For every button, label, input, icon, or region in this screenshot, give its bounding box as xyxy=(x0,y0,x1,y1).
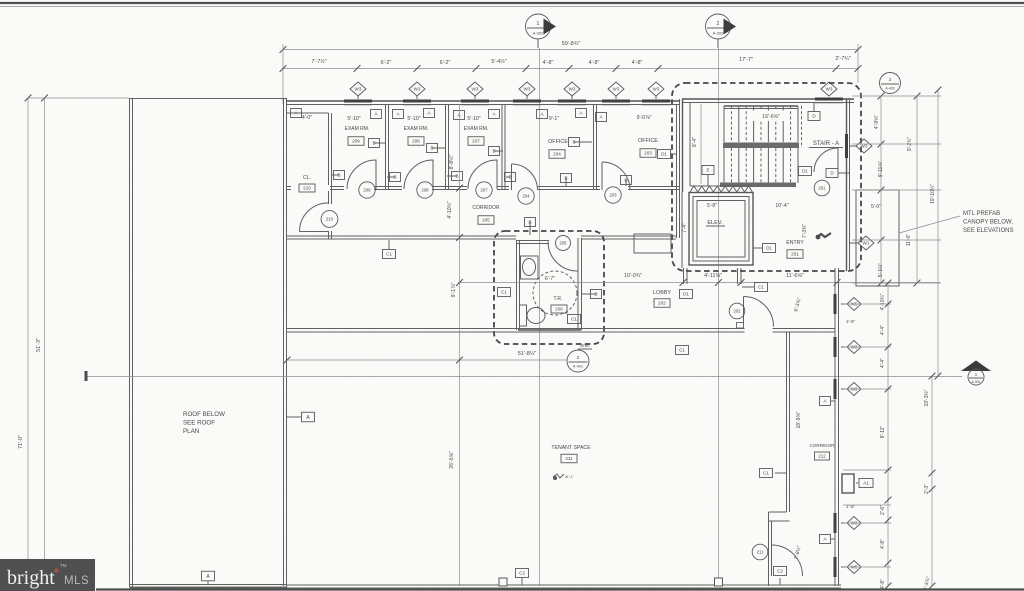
door tag B (626,180) xyxy=(625,180,627,186)
entry bottom dashed wall interior line xyxy=(681,192,683,268)
wall tag A (459,115) xyxy=(454,111,465,120)
long reference line to marker 1/A-301 xyxy=(86,376,962,378)
tenant bottom wall xyxy=(286,584,841,586)
marker 1 / A-301 right side xyxy=(961,361,991,372)
W3 tag right of stair xyxy=(850,145,856,147)
door arc office 204 xyxy=(512,164,538,190)
wall tag A corridor lower xyxy=(820,535,831,544)
wall tag A (376,114) xyxy=(371,110,382,119)
roof area right / tenant left wall xyxy=(283,98,285,586)
tag D1 office 203 wall xyxy=(670,153,677,155)
door tag B (530,222) xyxy=(529,222,531,235)
door arc exam 208 xyxy=(404,160,433,189)
toilet door arc xyxy=(548,242,578,272)
window tag W3 at x=475 xyxy=(474,96,476,99)
tag C1 below entry xyxy=(742,286,755,288)
tag C1 tenant right wall xyxy=(775,472,786,474)
tag W1 right of entry xyxy=(850,242,858,244)
stair treads upper flight xyxy=(724,105,798,107)
door arc office 203 xyxy=(602,162,630,190)
door tag 211 xyxy=(752,544,768,560)
stair handrail dashes xyxy=(801,106,803,148)
tenant top wall xyxy=(287,328,835,330)
tag C1 under corridor wall xyxy=(388,240,390,249)
tag D stair top xyxy=(813,102,815,112)
stair door arc xyxy=(814,148,838,172)
roof area left wall xyxy=(129,98,131,587)
window A1 xyxy=(842,474,854,493)
door tag 202 xyxy=(729,303,745,319)
tag D1 entry xyxy=(753,247,762,249)
closet CL right wall xyxy=(328,113,330,204)
door tag B (374,143) xyxy=(374,142,386,144)
window in stair right wall xyxy=(845,134,848,158)
door tag B (457,176) xyxy=(447,175,457,177)
second floor dashed boundary xyxy=(672,83,861,271)
dim line 10'-0 3/4 and lobby top line xyxy=(458,282,940,284)
left dimension extension line xyxy=(28,97,129,99)
exam rooms bottom wall xyxy=(287,186,679,188)
elevator hatched sill xyxy=(690,186,752,192)
roof area bottom wall xyxy=(130,584,287,586)
door arc exam 209 xyxy=(347,160,376,189)
window sill at x=358 xyxy=(344,100,372,103)
door tag 208 xyxy=(417,182,433,198)
door tag 207 xyxy=(476,182,492,198)
grid marker 2 / A-302 xyxy=(706,14,737,48)
tag C1 in toilet xyxy=(568,315,581,324)
roof area top wall xyxy=(130,98,287,100)
window sill at x=417 xyxy=(403,100,431,103)
wall right of office 203 xyxy=(676,104,678,238)
window tag W3 at x=572 xyxy=(571,96,573,99)
marker 2 / A-400 xyxy=(880,73,901,94)
tenant right wall jog xyxy=(769,511,787,513)
door tag B (339,175) xyxy=(331,174,339,176)
stair room top wall xyxy=(682,98,854,100)
door tag B (574,142) xyxy=(574,141,592,143)
right dim vertical x=888 xyxy=(887,283,889,586)
dim vertical 26'-6 5/8 xyxy=(459,104,461,586)
stair dim 8'-4 vertical xyxy=(700,104,702,184)
window sill at x=616 xyxy=(602,100,630,103)
tag D1 stair door xyxy=(799,167,812,176)
toilet fixture xyxy=(520,305,527,326)
canopy outline xyxy=(856,190,899,286)
window sill at x=527 xyxy=(513,100,541,103)
paper texture xyxy=(0,0,1,1)
segmented dimension line top row xyxy=(283,68,858,70)
window sill at x=656 xyxy=(642,100,670,103)
elevator car xyxy=(697,201,745,258)
corridor 212 windows and tags xyxy=(834,294,837,314)
wall between exam 209 and 208 xyxy=(385,104,387,190)
pencil scribble entry xyxy=(816,233,831,238)
door tag 209 xyxy=(359,182,375,198)
tag C2 bottom center xyxy=(521,578,523,585)
door tag circle 205 xyxy=(556,236,571,251)
wall between office 204 and 203 xyxy=(593,104,595,190)
tag E elevator xyxy=(702,166,714,175)
door tag B (566,178) xyxy=(565,178,567,186)
wall tag A (601,117) xyxy=(596,113,607,122)
stair room left wall xyxy=(679,99,681,192)
tag C1 left of toilet xyxy=(498,288,511,297)
door arc closet 210 xyxy=(300,203,329,232)
door tag B (395,177) xyxy=(387,176,395,178)
dimension line 51'-8 1/4 xyxy=(287,359,567,361)
stair dim 16'-6 5/8 xyxy=(752,111,790,122)
grid line 1 vertical xyxy=(539,48,541,586)
window tag W3 at x=417 xyxy=(416,96,418,99)
stair bottom bar xyxy=(720,183,796,188)
window in stair top wall xyxy=(815,98,843,101)
stair side wall interior xyxy=(689,102,691,186)
vestibule wall below entry xyxy=(737,268,739,284)
wall tag A corridor xyxy=(820,397,831,406)
grid marker 1 / A-302 xyxy=(526,14,557,48)
door tag 203 xyxy=(605,187,621,203)
tag C2 near door 211 xyxy=(779,578,781,585)
right dim vertical x=932 xyxy=(931,376,933,586)
door tag 201 xyxy=(814,180,830,196)
pencil scribble in tenant space xyxy=(553,474,564,478)
wall tag A (296,113) xyxy=(291,109,302,118)
turning radius dashed circle xyxy=(533,271,577,315)
corridor 212 exterior wall xyxy=(834,268,836,586)
tag C1 on ref line xyxy=(676,346,689,355)
door tag 210 xyxy=(321,211,338,228)
wall tag A bottom of roof area xyxy=(207,581,209,584)
tenant right wall upper xyxy=(786,332,788,512)
door tag 204 xyxy=(518,188,534,204)
wall right of exam 207 xyxy=(501,104,503,190)
toilet room top wall xyxy=(517,240,550,242)
tag D1 lobby xyxy=(680,290,693,299)
window sill at x=475 xyxy=(461,100,489,103)
building front wall xyxy=(287,100,679,102)
scan top border line xyxy=(0,2,1024,4)
door 211 arc xyxy=(772,545,803,576)
tag D stair right door xyxy=(826,169,838,178)
toilet area dashed boundary xyxy=(494,231,604,344)
wall tag A (429,113) xyxy=(424,109,435,118)
wall tag A (581,113) xyxy=(576,109,587,118)
stair landing bar xyxy=(723,143,799,149)
wall tag A (398,114) xyxy=(393,110,404,119)
canopy dim verticals xyxy=(880,96,882,283)
door arc exam 207 xyxy=(468,160,497,189)
corridor bottom wall xyxy=(287,235,516,237)
window sill at x=572 xyxy=(558,100,586,103)
elevator shaft walls xyxy=(689,193,753,266)
toilet room left wall xyxy=(516,240,518,330)
stair room right wall xyxy=(846,99,848,271)
toilet room bottom wall emphasis xyxy=(518,329,581,331)
wall tag A right of roof area xyxy=(287,416,301,418)
door tag B (432,148) xyxy=(432,147,446,149)
door tag B (596,294) xyxy=(582,293,596,295)
window tag W3 at x=358 xyxy=(357,96,359,99)
left outer dimension line 71'-0 xyxy=(27,98,29,560)
wall tag A (494,114) xyxy=(489,110,500,119)
right side extension lines xyxy=(843,303,891,305)
grid line 2 vertical xyxy=(717,48,719,586)
wall tag A (542,114) xyxy=(537,110,548,119)
entry bench rectangle xyxy=(634,234,671,253)
window tag W3 above stair xyxy=(821,82,837,96)
overall dimension line 59'-8 3/4 xyxy=(283,49,858,51)
bright MLS watermark xyxy=(0,559,95,591)
scan bottom edge line xyxy=(96,588,1024,590)
window tag W3 at x=656 xyxy=(655,96,657,99)
entry-lobby door jambs xyxy=(683,268,685,284)
wall between exam 208 and 207 xyxy=(445,104,447,190)
tenant right wall lower xyxy=(768,512,770,586)
sink xyxy=(521,256,539,279)
door tag B (510,177) xyxy=(506,176,510,178)
door 202 leaf and arc xyxy=(743,297,745,327)
left inner dimension line 51'-3 xyxy=(44,98,46,591)
window tag W3 at x=616 xyxy=(615,96,617,99)
stair treads lower flight xyxy=(723,148,725,183)
window tag W3 at x=527 xyxy=(526,96,528,99)
door tag B (494,151) xyxy=(494,150,503,152)
toilet room right wall xyxy=(577,238,579,330)
column stub bottom xyxy=(499,578,507,586)
